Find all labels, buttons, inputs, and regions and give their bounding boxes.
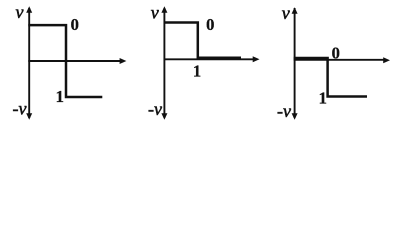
svg-text:0: 0 (332, 44, 341, 63)
svg-text:v: v (282, 3, 290, 23)
svg-text:v: v (16, 2, 24, 22)
svg-text:0: 0 (206, 15, 215, 34)
svg-text:1: 1 (319, 89, 328, 108)
svg-text:0: 0 (71, 15, 80, 34)
svg-text:-v: -v (277, 101, 291, 121)
svg-text:v: v (151, 3, 159, 23)
svg-text:1: 1 (56, 87, 65, 106)
svg-text:-v: -v (148, 99, 162, 119)
svg-text:-v: -v (13, 98, 27, 118)
svg-text:1: 1 (193, 62, 202, 81)
